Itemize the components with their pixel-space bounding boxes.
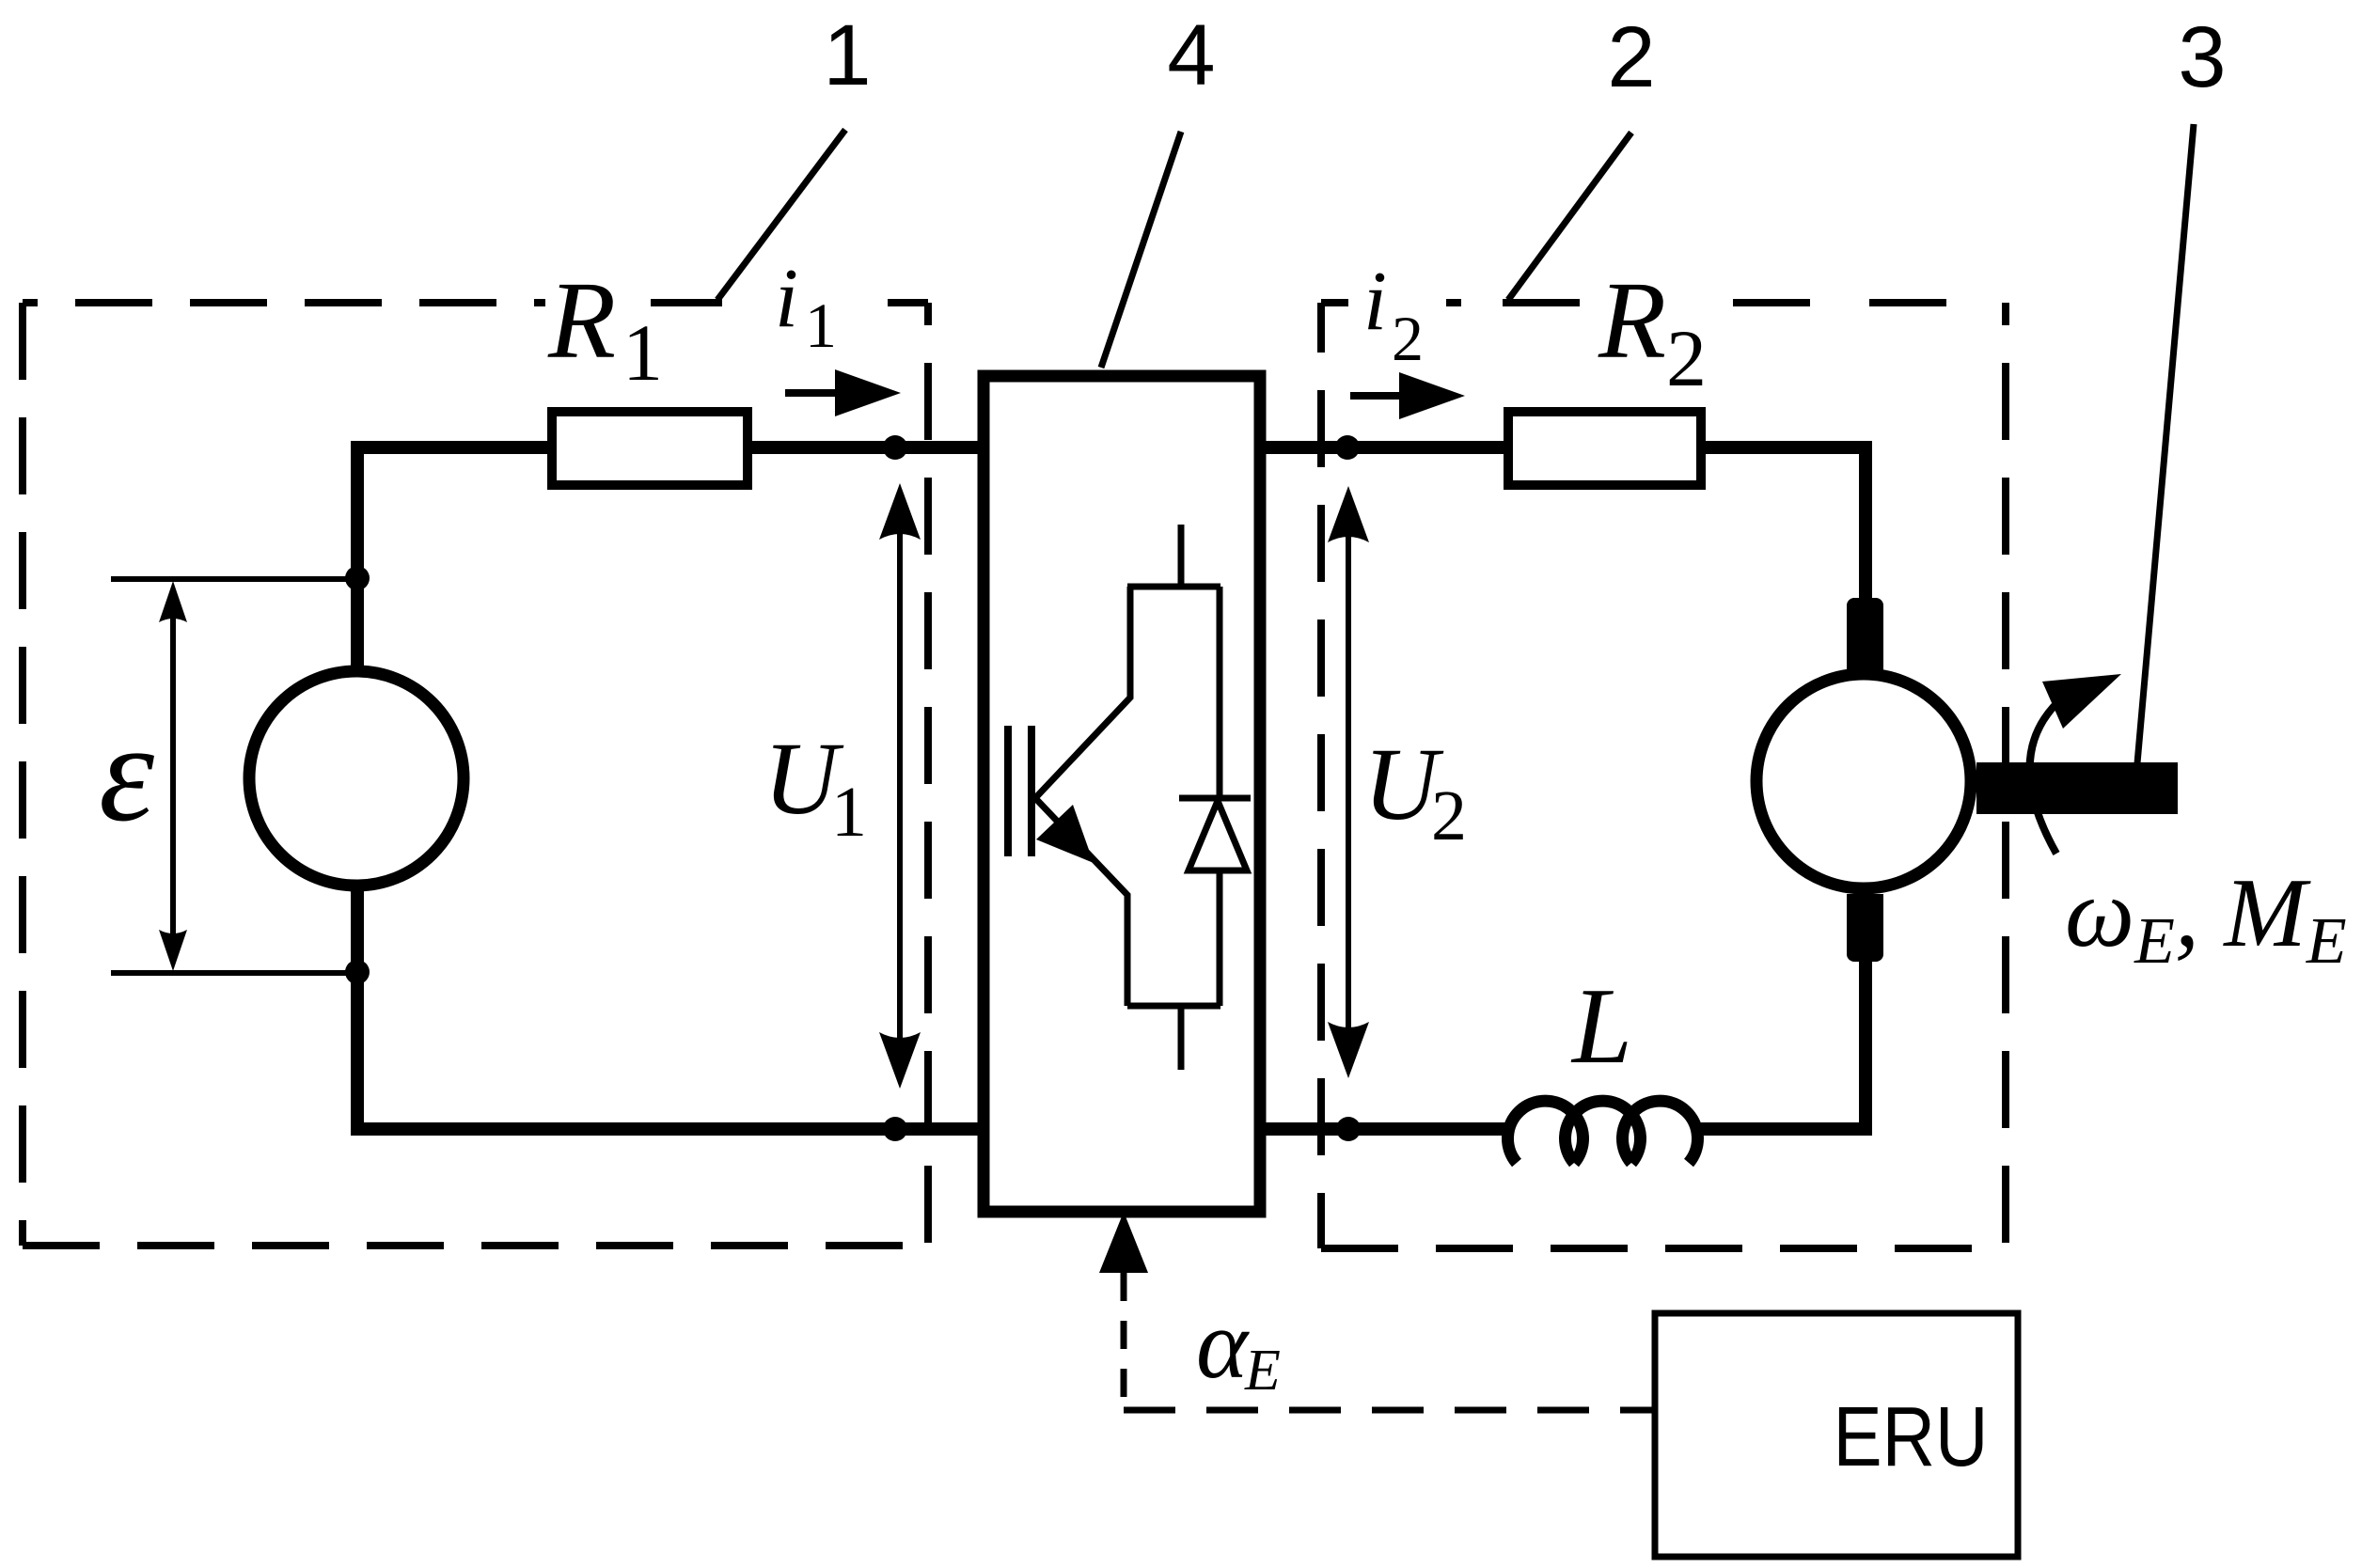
wire: source top to R1 [357, 447, 552, 672]
svg-text:ERU: ERU [1834, 1390, 1989, 1484]
svg-text:1: 1 [805, 290, 837, 361]
svg-text:3: 3 [2178, 9, 2226, 105]
IGBT gate bar right [1028, 726, 1035, 856]
svg-text:i: i [1363, 255, 1387, 348]
svg-text:2: 2 [1666, 313, 1707, 403]
voltage arrow U2 [1328, 486, 1369, 1078]
svg-text:2: 2 [1431, 776, 1467, 855]
IGBT collector path [1035, 525, 1220, 798]
resistor R2 [1508, 412, 1701, 485]
inductor L [1508, 1101, 1698, 1163]
source circle [249, 671, 464, 886]
svg-text:R: R [547, 259, 616, 382]
junction dot source bottom [345, 960, 370, 984]
junction dot top left [883, 435, 907, 460]
diode D1 [1179, 587, 1251, 1006]
IGBT emitter path [1035, 798, 1220, 1070]
svg-text:α: α [1196, 1289, 1250, 1399]
dashed box 2 (traction circuit) [1321, 303, 2006, 1248]
svg-text:L: L [1570, 966, 1632, 1086]
svg-text:2: 2 [1392, 303, 1424, 374]
diode triangle [1189, 801, 1247, 870]
rotation arc [2030, 696, 2065, 854]
IGBT emitter arrowhead [1036, 805, 1094, 863]
motor brush terminal bottom [1847, 894, 1883, 962]
motor brush terminal top [1847, 598, 1883, 674]
wire: inductor to motor [1693, 959, 1866, 1129]
dashed box 1 (supply network) [23, 303, 928, 1246]
wire: R1 to converter [748, 441, 984, 454]
leader line 1 [717, 130, 845, 300]
junction dot source top [345, 566, 370, 590]
wire: converter to inductor [1260, 1122, 1514, 1136]
wire: bottom left loop [357, 885, 984, 1129]
rotation arrowhead [2042, 674, 2121, 729]
leader line 4 [1101, 132, 1181, 368]
svg-text:2: 2 [1607, 9, 1655, 105]
motor shaft [1976, 762, 2178, 814]
IGBT gate bar left [1004, 726, 1012, 856]
junction dot bottom left [883, 1117, 907, 1141]
ERU box [1655, 1313, 2018, 1557]
wire: R2 to motor [1701, 447, 1866, 602]
junction dot bottom right [1336, 1117, 1361, 1141]
svg-text:1: 1 [622, 307, 663, 398]
thin line epsilon top [111, 576, 357, 582]
voltage arrow U1 [879, 483, 921, 1089]
svg-text:1: 1 [823, 8, 871, 103]
svg-text:1: 1 [831, 773, 867, 852]
current arrow i2 [1350, 372, 1465, 419]
epsilon double arrow [159, 581, 187, 971]
control line vertical dashed [1121, 1273, 1127, 1410]
control line horizontal dashed [1124, 1407, 1655, 1414]
svg-text:4: 4 [1167, 8, 1215, 103]
current arrow i1 [785, 369, 901, 416]
junction dot top right [1335, 435, 1360, 460]
resistor R1 [552, 412, 748, 485]
motor circle [1756, 674, 1971, 888]
svg-text:R: R [1598, 259, 1666, 382]
control arrow alphaE into converter [1099, 1212, 1148, 1273]
leader line 3 [2137, 124, 2194, 763]
thin line epsilon bottom [111, 970, 357, 976]
wire: converter to R2 [1260, 441, 1508, 454]
svg-text:ωE, ME: ωE, ME [2065, 857, 2347, 978]
svg-text:E: E [1244, 1339, 1281, 1403]
svg-text:ε: ε [99, 695, 154, 851]
leader line 2 [1508, 133, 1631, 300]
svg-text:i: i [775, 252, 798, 345]
converter box 4 [984, 376, 1260, 1212]
